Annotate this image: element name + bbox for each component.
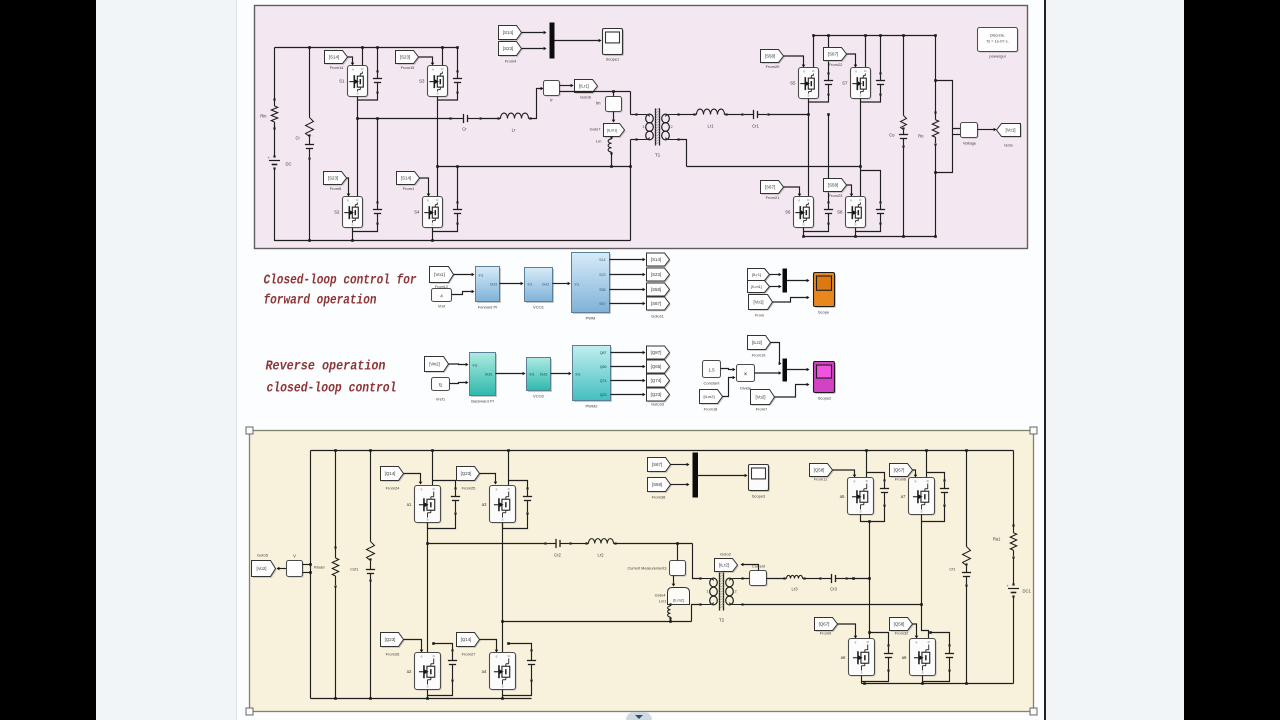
current measurement Im bbox=[596, 92, 623, 113]
svg-text:VCO1: VCO1 bbox=[533, 305, 545, 310]
svg-text:Scope2: Scope2 bbox=[818, 396, 832, 401]
from tag [Q23] for a2 bbox=[381, 633, 405, 657]
wire S5 to mid rail bbox=[808, 102, 810, 115]
multiply block Divide bbox=[737, 365, 755, 391]
svg-text:Out1: Out1 bbox=[540, 373, 548, 377]
snubber capacitor S7 bbox=[876, 34, 885, 95]
transformer T1 bbox=[635, 108, 679, 158]
goto tag [S67] bbox=[647, 297, 671, 311]
wire S5 source subrail bbox=[809, 95, 829, 103]
svg-text:[S23]: [S23] bbox=[400, 55, 410, 60]
scope Scope2 (magenta) bbox=[814, 362, 836, 401]
wire Lm1 to rail bbox=[669, 619, 672, 623]
svg-text:2: 2 bbox=[735, 590, 737, 594]
scope Scope (orange) bbox=[814, 273, 836, 315]
wire mux3 to Scope3 bbox=[698, 474, 748, 478]
wire Vref to PI bbox=[452, 290, 475, 295]
wire DC1 to bottom bbox=[1013, 597, 1015, 684]
junction Ci bottom bbox=[308, 239, 311, 242]
wire left bus bbox=[310, 451, 312, 699]
svg-text:Lr1: Lr1 bbox=[707, 124, 714, 129]
selection handle bbox=[246, 708, 253, 715]
wire ILm2 to divide bbox=[723, 376, 736, 397]
svg-text:[ILr2]: [ILr2] bbox=[719, 563, 729, 568]
from tag [Q58] for a5 bbox=[810, 464, 834, 482]
wire S4 to bottom rail bbox=[431, 232, 434, 242]
wire a3 to a4 bbox=[501, 523, 504, 653]
from tag [S58] for S5 bbox=[761, 50, 785, 70]
from tag [Vo2] scope2 feed bbox=[751, 390, 776, 412]
wire constant to divide bbox=[721, 368, 736, 372]
svg-text:From7: From7 bbox=[756, 407, 768, 412]
svg-text:Goto2: Goto2 bbox=[720, 552, 732, 557]
svg-text:From19: From19 bbox=[752, 353, 767, 358]
svg-text:[Q58]: [Q58] bbox=[894, 622, 905, 627]
wire Im to Goto7 bbox=[612, 112, 616, 123]
capacitor Co branch bbox=[889, 34, 908, 238]
svg-text:a5: a5 bbox=[840, 494, 845, 499]
wire Lr1 to Cr1 bbox=[727, 114, 743, 116]
wire divide to mux2 bbox=[755, 371, 782, 375]
wire gate a8 bbox=[913, 624, 919, 639]
wire PWM out S23 bbox=[610, 273, 646, 277]
wire V sense top bbox=[303, 563, 312, 566]
wire VCO2 to PWM2 bbox=[551, 372, 572, 376]
svg-text:Forward PI: Forward PI bbox=[478, 305, 498, 310]
wire Voltage to Goto bbox=[978, 128, 997, 132]
svg-text:From14: From14 bbox=[330, 65, 345, 70]
transistor a6 bbox=[841, 639, 876, 677]
from tag [Q67] for a7 bbox=[890, 464, 914, 482]
wire V sense bottom bbox=[303, 571, 312, 574]
from tag [ILm1] scope feed bbox=[748, 281, 771, 294]
wire drain riser a3 bbox=[507, 449, 510, 485]
svg-text:[S14]: [S14] bbox=[329, 55, 339, 60]
goto tag [ILm2] Goto4 bbox=[655, 588, 690, 605]
svg-text:[S58]: [S58] bbox=[652, 482, 662, 487]
svg-text:Lm: Lm bbox=[596, 139, 602, 144]
wire gate S7 bbox=[847, 54, 858, 68]
svg-text:Q23: Q23 bbox=[600, 393, 607, 397]
wire a6 drain riser bbox=[869, 579, 871, 639]
dc source DC1 bbox=[1007, 583, 1032, 598]
transistor a7 bbox=[901, 478, 936, 516]
svg-text:Q87: Q87 bbox=[600, 351, 607, 355]
svg-text:From26: From26 bbox=[386, 652, 401, 657]
svg-text:4: 4 bbox=[440, 294, 443, 299]
wire drain riser a5 bbox=[865, 449, 868, 477]
svg-text:S: S bbox=[854, 223, 856, 227]
svg-text:[Vo2]: [Vo2] bbox=[256, 566, 266, 571]
svg-text:[S14]: [S14] bbox=[503, 30, 513, 35]
svg-text:Vref1: Vref1 bbox=[436, 397, 446, 402]
svg-text:PWM2: PWM2 bbox=[586, 404, 599, 409]
wire a8 drain riser bbox=[922, 605, 929, 639]
svg-text:[Q23]: [Q23] bbox=[461, 471, 472, 476]
svg-text:S: S bbox=[859, 510, 861, 514]
constant f2 bbox=[432, 378, 450, 402]
svg-text:[Q87]: [Q87] bbox=[651, 350, 662, 355]
svg-text:[S23]: [S23] bbox=[328, 176, 338, 181]
svg-text:Lr3: Lr3 bbox=[791, 587, 798, 592]
wire V to Goto5 bbox=[277, 567, 287, 571]
svg-text:[Vo1]: [Vo1] bbox=[753, 300, 763, 305]
wire gate S2 bbox=[347, 178, 351, 197]
wire a6 to bottom rail bbox=[862, 682, 866, 685]
wire Current to Goto2 bbox=[741, 563, 759, 571]
svg-text:×: × bbox=[744, 372, 748, 378]
from tag [S58] scope3 feed bbox=[648, 478, 672, 500]
svg-text:[ILr1]: [ILr1] bbox=[579, 84, 589, 89]
svg-text:S14: S14 bbox=[599, 258, 605, 262]
svg-text:[S58]: [S58] bbox=[765, 54, 775, 59]
svg-text:Backward PI: Backward PI bbox=[471, 399, 493, 404]
snubber capacitor S5 bbox=[824, 34, 833, 95]
wire S6 source subrail bbox=[804, 224, 829, 232]
wire S7 to lower rail bbox=[860, 102, 862, 197]
svg-text:S: S bbox=[920, 510, 922, 514]
svg-text:a4: a4 bbox=[482, 669, 487, 674]
wire gate a3 bbox=[480, 474, 498, 485]
snubber capacitor a8 bbox=[929, 631, 954, 671]
from tag [Q14] for a4 bbox=[457, 633, 481, 657]
svg-text:From11: From11 bbox=[814, 477, 828, 482]
scroll hint widget bbox=[626, 712, 652, 720]
svg-text:Im: Im bbox=[596, 101, 601, 106]
svg-text:From22: From22 bbox=[829, 62, 844, 67]
wire Lr to Ir bbox=[531, 87, 544, 119]
svg-text:S: S bbox=[860, 671, 862, 675]
goto tag [Q74] row2 bbox=[647, 374, 671, 388]
transistor S7 bbox=[842, 68, 872, 100]
svg-text:PWM: PWM bbox=[586, 316, 596, 321]
svg-text:Reverse operation: Reverse operation bbox=[266, 359, 386, 375]
svg-text:V: V bbox=[293, 554, 296, 559]
svg-text:[S23]: [S23] bbox=[503, 46, 513, 51]
wire PWM2 out Q65 bbox=[611, 365, 646, 369]
wire PWM out S14 bbox=[610, 258, 646, 262]
svg-text:Q74: Q74 bbox=[600, 379, 607, 383]
wire gate a4 bbox=[480, 640, 499, 653]
svg-text:[S67]: [S67] bbox=[652, 462, 662, 467]
svg-text:[S14]: [S14] bbox=[401, 176, 411, 181]
from tag [S67] for S6 bbox=[761, 181, 785, 201]
wire lower mid rail bbox=[438, 166, 631, 168]
selection handle bbox=[246, 427, 253, 434]
svg-text:Out1: Out1 bbox=[490, 283, 498, 287]
subsystem VCO1 bbox=[525, 268, 554, 310]
wire T2 primary bottom riser bbox=[692, 605, 701, 622]
svg-text:S: S bbox=[921, 671, 923, 675]
svg-text:S58: S58 bbox=[599, 288, 605, 292]
wire gate a5 bbox=[833, 470, 857, 478]
transistor S2 bbox=[334, 197, 364, 229]
wire bottom rail right bridge bbox=[804, 236, 936, 238]
from tag [Q14] for a1 bbox=[381, 467, 405, 491]
svg-text:a1: a1 bbox=[407, 502, 412, 507]
svg-text:In1: In1 bbox=[530, 373, 535, 377]
svg-text:From6: From6 bbox=[895, 477, 907, 482]
constant Vref bbox=[432, 285, 452, 309]
snubber capacitor a6 bbox=[868, 631, 893, 671]
wire gate a7 bbox=[913, 470, 918, 478]
mux for Scope1 bbox=[550, 23, 555, 59]
goto tag [ILm1] Goto7 bbox=[590, 124, 626, 138]
wire drain riser a7 bbox=[925, 449, 928, 477]
from tag [S14] to mux bbox=[499, 26, 523, 41]
capacitor Cr2 bbox=[544, 539, 571, 558]
from tag [S14] for S4 bbox=[397, 172, 421, 192]
svg-text:From27: From27 bbox=[462, 652, 477, 657]
svg-text:Scope1: Scope1 bbox=[606, 57, 620, 62]
wire T2 primary top riser bbox=[693, 544, 701, 579]
svg-text:[Vo1]: [Vo1] bbox=[1005, 128, 1015, 133]
svg-text:Q65: Q65 bbox=[600, 365, 607, 369]
svg-text:S6: S6 bbox=[785, 210, 791, 215]
svg-text:[Vo1]: [Vo1] bbox=[434, 272, 444, 277]
svg-text:From32: From32 bbox=[895, 631, 910, 636]
svg-text:S4: S4 bbox=[414, 210, 420, 215]
wire S7 source subrail bbox=[861, 95, 881, 103]
wire drain riser S5 bbox=[812, 34, 815, 67]
wire right bus upper bbox=[1013, 451, 1015, 528]
wire a8 source subrail bbox=[923, 671, 950, 682]
from tag [ILm2] divide feed bbox=[700, 390, 724, 412]
transistor a4 bbox=[482, 653, 517, 691]
goto tag [S14] bbox=[647, 253, 671, 267]
wire Current to Lr3 bbox=[767, 578, 785, 580]
from tag [Vo1] input bbox=[430, 267, 455, 284]
wire a2 to bottom rail bbox=[426, 696, 429, 700]
subsystem PWM2 bbox=[573, 346, 612, 409]
svg-text:[ILm1]: [ILm1] bbox=[751, 285, 762, 289]
goto tag [Q23] row2 bbox=[647, 388, 671, 402]
junction Ci top bbox=[308, 46, 311, 49]
svg-text:Constant: Constant bbox=[703, 381, 720, 386]
svg-text:[ILm1]: [ILm1] bbox=[607, 129, 618, 133]
column divider line left bbox=[236, 0, 237, 720]
snubber capacitor S4 bbox=[453, 165, 462, 224]
wire ILr2 to mux2 bbox=[771, 343, 782, 366]
resistor Ro branch bbox=[918, 34, 939, 238]
resistor Rin bbox=[260, 98, 277, 129]
wire Vo2 to Scope2 bbox=[775, 383, 810, 397]
selection handle bbox=[1030, 427, 1037, 434]
goto tag [S23] bbox=[647, 268, 671, 282]
wire drain riser S7 bbox=[864, 34, 867, 67]
wire Vo1 to Scope bbox=[773, 296, 810, 302]
svg-text:S7: S7 bbox=[842, 81, 848, 86]
inductor Lr bbox=[497, 113, 531, 132]
wire PWM2 out Q23 bbox=[611, 393, 646, 397]
svg-text:[ILr2]: [ILr2] bbox=[752, 340, 762, 345]
svg-text:From23: From23 bbox=[829, 193, 844, 198]
wire mid rail to Cr bbox=[358, 118, 453, 120]
subsystem Backward PI bbox=[470, 353, 497, 404]
label Goto11 bbox=[651, 314, 665, 319]
svg-text:[Q65]: [Q65] bbox=[651, 364, 662, 369]
inductor Lr3 bbox=[783, 575, 805, 591]
wire Lr3 to Cr3 bbox=[805, 578, 821, 580]
svg-text:a7: a7 bbox=[901, 494, 906, 499]
transistor a3 bbox=[482, 486, 517, 524]
wire CM3 to Goto4 bbox=[672, 576, 676, 587]
wire mux to Scope1 bbox=[555, 39, 602, 43]
svg-text:From4: From4 bbox=[505, 59, 517, 64]
goto tag [S58] bbox=[647, 283, 671, 297]
svg-text:S67: S67 bbox=[599, 302, 605, 306]
transistor S8 bbox=[837, 197, 867, 229]
wire PWM out S67 bbox=[610, 302, 646, 306]
svg-text:In1: In1 bbox=[479, 274, 484, 278]
svg-text:From24: From24 bbox=[386, 486, 401, 491]
wire Cr3 to right leg bbox=[847, 577, 871, 580]
voltage measurement block bbox=[961, 123, 979, 146]
svg-text:[Vo2]: [Vo2] bbox=[755, 395, 765, 400]
inner white content column bbox=[237, 0, 1044, 720]
wire gate S8 bbox=[847, 185, 854, 197]
svg-text:[S67]: [S67] bbox=[651, 301, 661, 306]
svg-text:[Q23]: [Q23] bbox=[385, 637, 396, 642]
from tag [S23] for S2 bbox=[324, 172, 348, 192]
wire S6 to bottom rail bbox=[802, 232, 805, 238]
mux for Scope bbox=[783, 269, 788, 293]
wire gate S3 bbox=[419, 57, 435, 66]
wire PWM out S58 bbox=[610, 288, 646, 292]
svg-text:Ra1: Ra1 bbox=[993, 537, 1001, 542]
svg-text:Rin: Rin bbox=[260, 114, 267, 119]
svg-text:S: S bbox=[501, 518, 503, 522]
wire right lower mid rail bbox=[687, 165, 862, 168]
from tag [Q23] for a3 bbox=[457, 467, 481, 491]
svg-text:[S67]: [S67] bbox=[765, 185, 775, 190]
wire a5 to mid node bbox=[868, 520, 871, 578]
svg-text:From1: From1 bbox=[403, 186, 415, 191]
wire S8 to bottom rail bbox=[854, 232, 857, 238]
svg-text:[Q67]: [Q67] bbox=[894, 468, 905, 473]
svg-text:From9: From9 bbox=[820, 631, 832, 636]
wire bottom rail primary bbox=[311, 698, 532, 700]
svg-text:Out1: Out1 bbox=[542, 283, 550, 287]
from tag [Vo1] scope feed bbox=[749, 295, 774, 318]
svg-text:S: S bbox=[351, 223, 353, 227]
svg-text:From: From bbox=[755, 313, 765, 318]
svg-text:Cf1: Cf1 bbox=[949, 567, 956, 572]
svg-text:[S23]: [S23] bbox=[651, 272, 661, 277]
wire S8 source subrail bbox=[856, 224, 881, 232]
svg-text:Vref: Vref bbox=[438, 304, 446, 309]
from tag [Vin2] input bbox=[425, 357, 450, 373]
wire Ra1 to DC1 bbox=[1013, 558, 1015, 585]
wire a1 source subrail bbox=[428, 514, 456, 529]
from tag [ILr1] scope feed bbox=[748, 269, 771, 282]
wire T1 secondary top bbox=[679, 114, 695, 116]
powergui block bbox=[978, 28, 1019, 59]
capacitor Cr3 bbox=[819, 574, 847, 592]
wire Vo1 to PI bbox=[454, 273, 475, 277]
subsystem PWM bbox=[572, 253, 611, 321]
svg-text:1: 1 bbox=[706, 590, 708, 594]
svg-text:Goto6: Goto6 bbox=[580, 95, 592, 100]
svg-text:From21: From21 bbox=[766, 195, 781, 200]
svg-text:Goto: Goto bbox=[1004, 143, 1013, 148]
svg-text:Ci: Ci bbox=[296, 136, 300, 141]
svg-text:Rload: Rload bbox=[314, 565, 324, 570]
svg-text:Goto7: Goto7 bbox=[590, 127, 602, 132]
voltage measurement V bbox=[287, 554, 304, 578]
svg-text:[Q14]: [Q14] bbox=[385, 471, 396, 476]
scope Scope3 bbox=[749, 465, 770, 499]
svg-text:[Vin2]: [Vin2] bbox=[429, 362, 440, 367]
scope Scope1 bbox=[603, 29, 624, 62]
wire mux to Scope bbox=[787, 279, 810, 283]
svg-text:a3: a3 bbox=[482, 502, 487, 507]
svg-text:S: S bbox=[501, 685, 503, 689]
svg-text:[ILm2]: [ILm2] bbox=[673, 599, 684, 603]
from tag [S23] to mux bbox=[499, 42, 523, 64]
svg-text:2: 2 bbox=[671, 125, 673, 129]
wire Ir output rail bbox=[560, 90, 631, 93]
wire Cr1 to right bridge bbox=[769, 113, 810, 116]
label Goto33 bbox=[651, 402, 665, 407]
mux for Scope2 bbox=[783, 359, 788, 382]
goto tag [ILr2] Goto2 bbox=[715, 552, 739, 573]
snubber capacitor S2 bbox=[373, 117, 382, 224]
svg-text:In1: In1 bbox=[575, 283, 580, 287]
transistor S5 bbox=[790, 68, 820, 100]
svg-text:In1: In1 bbox=[576, 373, 581, 377]
svg-text:S1: S1 bbox=[339, 79, 345, 84]
svg-text:[S58]: [S58] bbox=[828, 183, 838, 188]
svg-text:From38: From38 bbox=[652, 495, 667, 500]
wire S2 source subrail bbox=[353, 224, 378, 232]
svg-text:S: S bbox=[436, 92, 438, 96]
transformer T2 bbox=[699, 572, 743, 623]
svg-text:S2: S2 bbox=[334, 210, 340, 215]
wire a4 source subrail bbox=[503, 681, 532, 696]
from tag [S23] for S3 bbox=[396, 51, 420, 71]
wire ILm1 to mux bbox=[770, 285, 782, 289]
wire a7 source subrail bbox=[922, 506, 945, 522]
wire a1 to a2 bbox=[426, 523, 429, 653]
svg-text:DC: DC bbox=[286, 162, 292, 167]
inductor Lr1 bbox=[693, 109, 727, 128]
wire bottom rail left bridge bbox=[275, 240, 631, 242]
transistor S4 bbox=[414, 197, 444, 229]
goto tag [Q87] row2 bbox=[647, 346, 671, 360]
svg-text:[S14]: [S14] bbox=[651, 257, 661, 262]
svg-text:1: 1 bbox=[642, 125, 644, 129]
wire mux2 to Scope2 bbox=[787, 368, 810, 372]
wire a7 to lower rail bbox=[920, 522, 923, 606]
transistor a5 bbox=[840, 478, 875, 516]
svg-text:From18: From18 bbox=[704, 407, 719, 412]
snubber capacitor a4 bbox=[507, 642, 536, 681]
svg-text:Cr: Cr bbox=[462, 127, 467, 132]
wire lower mid rail primary bbox=[503, 621, 692, 623]
svg-text:Goto4: Goto4 bbox=[655, 593, 667, 598]
svg-text:[Q14]: [Q14] bbox=[461, 637, 472, 642]
svg-text:[Q58]: [Q58] bbox=[814, 468, 825, 473]
wire drain riser a1 bbox=[431, 449, 434, 485]
wire mid rail to S2 drain bbox=[356, 117, 359, 196]
goto tag [ILr1] Goto6 bbox=[575, 80, 599, 100]
transistor S6 bbox=[785, 197, 815, 229]
wire S4 source subrail bbox=[433, 224, 458, 232]
transistor S3 bbox=[419, 66, 449, 98]
wire gate S1 bbox=[348, 57, 355, 66]
snubber capacitor a1 bbox=[433, 481, 461, 515]
